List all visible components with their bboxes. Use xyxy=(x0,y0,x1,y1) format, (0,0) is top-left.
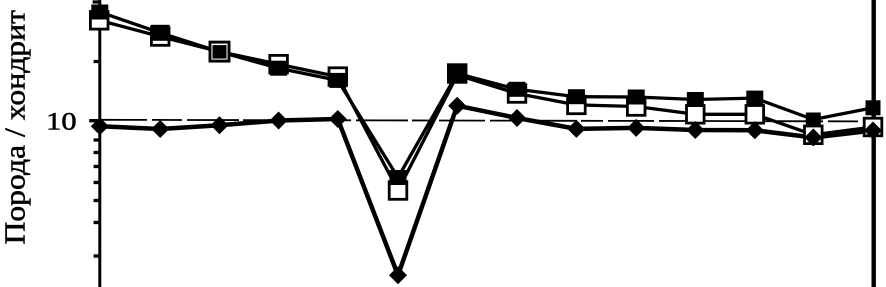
y-axis title: Порода / хондрит xyxy=(0,10,32,245)
tick 5 xyxy=(94,199,100,202)
filled-square marker pt9 xyxy=(568,89,585,104)
open-square marker pt14 xyxy=(864,118,882,136)
tick 4 xyxy=(94,221,100,224)
filled-square marker pt3 xyxy=(213,45,227,59)
filled-square marker pt5 xyxy=(329,73,346,88)
diamond marker pt13 xyxy=(804,129,822,147)
filled-square series line xyxy=(100,12,873,178)
tick 3 xyxy=(94,254,100,257)
diamond marker pt9 xyxy=(567,120,585,138)
open-square marker pt5 xyxy=(329,68,347,86)
open-square marker pt8 xyxy=(508,85,526,103)
open-square marker pt7 xyxy=(448,65,466,83)
open-square marker pt1 xyxy=(90,12,108,30)
major tick 10 xyxy=(89,119,100,122)
filled-square marker pt12 xyxy=(746,91,763,106)
open-square marker pt6 xyxy=(389,182,407,200)
y-axis tick label 10 xyxy=(46,107,76,136)
filled-square marker pt13 xyxy=(806,113,821,127)
filled-square marker pt1 xyxy=(91,5,108,20)
open-square marker pt10 xyxy=(627,98,645,116)
diamond marker pt12 xyxy=(746,121,764,139)
chondrite reference dash-dot gridline at 10 xyxy=(101,120,872,122)
filled-square marker pt11 xyxy=(687,92,704,107)
diamond marker pt6 xyxy=(389,266,407,284)
left y-axis line xyxy=(98,0,101,287)
diamond marker pt8 xyxy=(508,109,526,127)
diamond marker pt2 xyxy=(151,120,169,138)
diamond marker pt5 xyxy=(329,110,347,128)
open-square series line xyxy=(100,21,873,191)
filled-square marker pt7 xyxy=(449,66,466,81)
tick 6 xyxy=(94,181,100,184)
diamond series line xyxy=(100,106,873,276)
filled-square marker pt10 xyxy=(628,90,645,105)
tick 20 xyxy=(94,60,100,63)
diamond marker pt14 xyxy=(864,122,882,140)
diamond marker pt7 xyxy=(448,97,466,115)
diamond marker pt10 xyxy=(627,119,645,137)
diamond marker pt11 xyxy=(686,121,704,139)
open-square marker pt11 xyxy=(687,106,705,124)
svg-text:Порода / хондрит: Порода / хондрит xyxy=(0,10,32,245)
tick 7 xyxy=(94,165,100,168)
open-square marker pt9 xyxy=(568,96,586,114)
tick 9 xyxy=(94,138,100,141)
filled-square marker pt4 xyxy=(270,61,287,76)
filled-square marker pt8 xyxy=(509,82,526,97)
diamond marker pt4 xyxy=(270,112,288,130)
open-square marker pt13 xyxy=(805,126,823,144)
open-square marker pt4 xyxy=(270,55,288,73)
tick 30 xyxy=(93,0,100,3)
filled-square marker pt2 xyxy=(151,25,170,41)
filled-square marker pt14 xyxy=(866,100,881,115)
diamond marker pt3 xyxy=(211,116,229,134)
tick 8 xyxy=(94,151,100,154)
open-square marker pt3 xyxy=(210,42,229,61)
open-square marker pt12 xyxy=(746,106,764,124)
open-square marker pt2 xyxy=(151,28,169,46)
filled-square marker pt6 xyxy=(390,170,407,185)
diamond marker pt1 xyxy=(91,117,109,135)
svg-text:10: 10 xyxy=(46,107,76,136)
right axis line xyxy=(872,0,876,287)
